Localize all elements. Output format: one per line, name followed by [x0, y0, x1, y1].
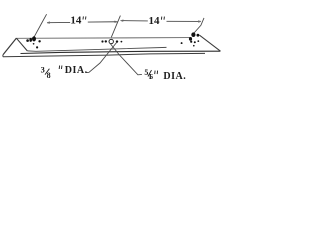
- bar left end slope: [3, 38, 17, 55]
- node left label quote mark: [59, 66, 62, 70]
- svg-text:14: 14: [149, 15, 161, 27]
- bar right end diagonal: [200, 35, 221, 51]
- node right dim arrowhead left: [121, 20, 124, 22]
- hole dot left 1: [26, 39, 29, 42]
- bolt head left: [32, 36, 36, 41]
- svg-text:14: 14: [70, 15, 82, 27]
- bar top back edge: [17, 37, 190, 40]
- node right dim quote ticks: [161, 17, 164, 20]
- hole dot right small: [181, 42, 183, 44]
- svg-text:DIA.: DIA.: [65, 65, 88, 76]
- wire left dimension line segment 2: [88, 21, 118, 23]
- bolt head right big: [191, 32, 195, 37]
- bolt washer right: [189, 37, 192, 41]
- wire right extension tick line: [194, 18, 204, 33]
- wire leader B to right label: [110, 44, 142, 75]
- wire right dimension line segment 1: [121, 20, 148, 22]
- node left dim quote ticks: [83, 16, 86, 19]
- node left dim arrowhead: [47, 22, 50, 24]
- hole dot right 1: [190, 41, 192, 43]
- svg-text:3: 3: [41, 66, 45, 75]
- hole dot right 2: [194, 41, 196, 43]
- bar fold line A: [27, 47, 166, 51]
- hole dot middle 3: [116, 40, 118, 42]
- svg-text:16: 16: [148, 73, 153, 81]
- wire left extension tick line: [34, 14, 46, 37]
- hole dot middle 2: [105, 40, 107, 42]
- hole dot left 2: [29, 38, 32, 42]
- hole dot right 4: [193, 45, 195, 47]
- node left label fraction 3/8: [41, 66, 51, 80]
- hole dot left 3: [33, 43, 35, 45]
- bar bottom edge C: [3, 53, 205, 56]
- bar front top edge B: [21, 51, 221, 53]
- node right label fraction 5/16: [144, 68, 153, 81]
- hole dot middle 1: [101, 40, 103, 42]
- hole dot middle 4: [121, 41, 123, 43]
- wire left dimension line segment 1: [47, 21, 70, 23]
- bar left tip vertical: [2, 55, 4, 57]
- svg-text:8: 8: [47, 71, 51, 80]
- node right label quote mark: [155, 71, 158, 75]
- bolt nut right: [197, 34, 200, 37]
- hole dot left 4: [38, 40, 40, 42]
- wire right dimension line segment 2: [167, 20, 202, 22]
- hole ring middle: [109, 39, 113, 43]
- bar left fold diagonal: [17, 38, 28, 51]
- wire middle extension tick line: [111, 16, 120, 38]
- svg-text:DIA.: DIA.: [163, 71, 186, 82]
- node middle dim arrowhead left side: [114, 21, 117, 23]
- node right dim arrowhead right: [198, 21, 201, 23]
- hole dot right 3: [197, 40, 199, 42]
- wire leader A to left label: [86, 42, 117, 73]
- hole dot left 5: [36, 46, 38, 48]
